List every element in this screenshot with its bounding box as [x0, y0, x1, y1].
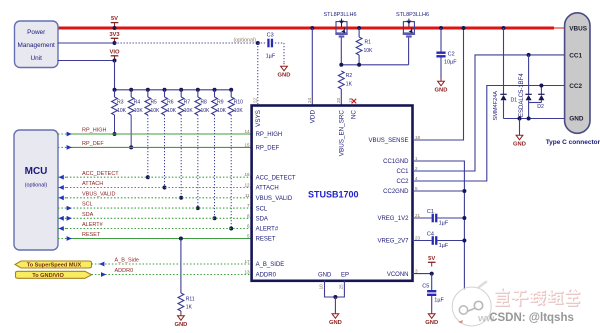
svg-text:R4: R4: [134, 99, 141, 105]
svg-text:Management: Management: [18, 42, 56, 49]
svg-text:GND: GND: [513, 142, 526, 148]
svg-text:D2: D2: [537, 104, 544, 110]
svg-text:2: 2: [415, 166, 418, 171]
wire A_B_SIDE: [92, 263, 252, 265]
node bus junction R6: [163, 88, 167, 92]
svg-text:VBUS: VBUS: [569, 26, 587, 33]
wire signal SCL MCU to U1: [58, 207, 67, 209]
node RP_DEF junction: [129, 145, 133, 149]
wire VBUS_SENSE: [413, 28, 464, 140]
resistor R6 10K pull-up: [164, 90, 166, 97]
node CC2GND junction: [413, 190, 465, 192]
watermark text elecfans: [496, 289, 579, 306]
svg-text:Power: Power: [27, 29, 46, 36]
resistor R11 1K: [178, 293, 184, 311]
wire signal SDA MCU to U1: [58, 217, 67, 219]
svg-text:ACC_DETECT: ACC_DETECT: [256, 175, 296, 181]
svg-text:GND: GND: [435, 88, 448, 94]
resistor R4 10K pull-up: [130, 90, 132, 97]
wire signal RP_DEF MCU to U1: [58, 146, 67, 148]
svg-text:10K: 10K: [134, 108, 144, 114]
svg-text:VCONN: VCONN: [387, 272, 409, 278]
svg-text:6: 6: [247, 224, 250, 229]
svg-text:CC1: CC1: [569, 52, 582, 59]
svg-text:VDD: VDD: [310, 110, 317, 124]
ground GND (connector): [519, 119, 521, 133]
svg-text:R9: R9: [217, 99, 224, 105]
wire VIO from PMU: [58, 60, 115, 62]
wire signal RP_HIGH MCU to U1: [58, 133, 67, 135]
node RESET/R11 junction: [179, 237, 183, 241]
svg-text:C4: C4: [427, 232, 434, 238]
svg-text:VREG_2V7: VREG_2V7: [377, 239, 409, 245]
svg-text:Unit: Unit: [31, 55, 43, 62]
svg-text:GND: GND: [329, 320, 342, 326]
wire signal VBUS_VALID MCU to U1: [58, 197, 67, 199]
node ACC_DETECT junction: [146, 175, 150, 179]
svg-text:ADDR0: ADDR0: [115, 268, 134, 274]
svg-text:ESDALC5-1BF4: ESDALC5-1BF4: [519, 73, 525, 117]
resistor R9 10K pull-up: [214, 90, 216, 97]
ground GND (C5): [431, 311, 433, 314]
transistor Q1 STL8P3LLH6: [336, 22, 347, 33]
svg-text:ALERT#: ALERT#: [256, 227, 279, 233]
svg-text:SCL: SCL: [82, 202, 93, 208]
node ALERT# junction: [229, 227, 233, 231]
diode D2 ESDALC5-1BF4: [528, 55, 530, 94]
svg-text:ADDR0: ADDR0: [256, 273, 277, 279]
svg-text:4: 4: [415, 176, 418, 181]
svg-text:R1: R1: [365, 39, 372, 45]
svg-text:ATTACH: ATTACH: [256, 186, 279, 192]
ground GND (C2): [440, 78, 442, 81]
pin NC no-connect X: [352, 99, 357, 104]
svg-text:8: 8: [247, 213, 250, 218]
svg-text:CC2: CC2: [569, 83, 582, 90]
svg-text:GND: GND: [318, 273, 332, 279]
resistor R3 10K pull-up: [114, 90, 116, 97]
svg-text:STL8P3LLH6: STL8P3LLH6: [323, 12, 356, 18]
node gate/R2 junction: [339, 63, 343, 67]
svg-text:(optional): (optional): [25, 183, 48, 189]
wire R4 to RP_DEF: [130, 115, 132, 147]
capacitor C2 10uF: [440, 28, 442, 52]
svg-text:C3: C3: [267, 32, 274, 38]
svg-text:CC2GND: CC2GND: [383, 189, 409, 195]
node bus junction R4: [129, 88, 133, 92]
svg-text:R10: R10: [234, 99, 243, 105]
wire gate line Q1-Q2: [340, 38, 342, 65]
resistor R10 10K pull-up: [230, 90, 232, 97]
svg-text:24: 24: [307, 97, 312, 103]
watermark logo circle: [452, 282, 491, 327]
svg-text:1K: 1K: [346, 81, 353, 87]
svg-text:18: 18: [415, 135, 421, 140]
wire VIO drop to pull-up bus: [114, 61, 116, 90]
svg-text:3: 3: [415, 269, 418, 274]
svg-text:R11: R11: [186, 296, 195, 302]
svg-text:To GND/VIO: To GND/VIO: [32, 273, 64, 279]
node SDA junction: [213, 216, 217, 220]
svg-text:21: 21: [415, 213, 421, 218]
capacitor C3 1uF: [267, 39, 269, 48]
svg-text:CC1: CC1: [396, 169, 409, 175]
capacitor C1 1uF: [413, 217, 432, 219]
svg-text:10K: 10K: [117, 108, 127, 114]
node RP_HIGH junction: [113, 132, 117, 136]
wire R10 to ALERT#: [230, 115, 232, 229]
node bus junction R9: [213, 88, 217, 92]
wire VSYS dashed: [257, 43, 259, 106]
svg-text:3V3: 3V3: [109, 32, 120, 38]
svg-text:RP_DEF: RP_DEF: [256, 146, 280, 152]
svg-text:22: 22: [252, 97, 257, 103]
svg-text:13: 13: [244, 270, 250, 275]
svg-text:1µF: 1µF: [439, 243, 449, 249]
wire signal ACC_DETECT MCU to U1: [58, 176, 67, 178]
svg-text:ALERT#: ALERT#: [82, 222, 104, 228]
node SCL junction: [196, 206, 200, 210]
svg-text:GND: GND: [425, 320, 438, 326]
svg-text:C5: C5: [422, 283, 429, 289]
svg-text:10µF: 10µF: [444, 60, 457, 66]
svg-text:10K: 10K: [234, 108, 244, 114]
svg-text:SDA: SDA: [256, 217, 268, 223]
ground GND (U1 exposed pad): [334, 311, 336, 314]
capacitor C5 1uF: [431, 274, 433, 291]
mcu box U-MCU: [14, 130, 58, 250]
svg-text:1µF: 1µF: [266, 54, 276, 60]
svg-text:R6: R6: [167, 99, 174, 105]
wire C3 left stub: [258, 42, 266, 44]
wire CC1GND/CC2GND ground bus: [413, 161, 465, 290]
svg-text:VREG_1V2: VREG_1V2: [377, 216, 409, 222]
wire pull-up bus VIO: [115, 89, 232, 91]
svg-text:ATTACH: ATTACH: [82, 181, 103, 187]
power symbol 3V3: [114, 38, 116, 42]
node bus junction R3: [113, 88, 117, 92]
wire signal RESET MCU to U1: [58, 238, 67, 240]
wire signal ATTACH MCU to U1: [58, 187, 67, 189]
resistor R2 1K: [338, 71, 344, 89]
offpage flag To GND/VIO: [16, 271, 92, 278]
wire 3V3 dashed (optional) to VSYS/C3: [115, 42, 258, 44]
svg-text:SDA: SDA: [82, 212, 94, 218]
power-management-unit box U-PMU: [15, 21, 59, 68]
svg-text:VBUS_SENSE: VBUS_SENSE: [368, 138, 408, 144]
svg-text:VIO: VIO: [110, 49, 120, 55]
svg-text:VBUS_VALID: VBUS_VALID: [82, 191, 116, 197]
svg-text:ACC_DETECT: ACC_DETECT: [82, 171, 119, 177]
svg-text:10K: 10K: [200, 108, 210, 114]
wire VCONN: [413, 273, 432, 275]
node R1 bottom junction: [357, 63, 361, 67]
svg-text:5V: 5V: [428, 256, 435, 262]
svg-text:CC1GND: CC1GND: [383, 159, 409, 165]
diode D1 SMM4F24A TVS: [503, 28, 505, 94]
svg-text:16: 16: [244, 172, 250, 177]
wire ADDR0: [92, 274, 252, 276]
svg-text:SCL: SCL: [256, 206, 268, 212]
svg-text:GND: GND: [278, 73, 291, 79]
svg-text:1µF: 1µF: [434, 298, 444, 304]
svg-text:VSYS: VSYS: [255, 110, 262, 127]
wire CC1 to connector: [413, 55, 565, 171]
node R1 rail junction: [357, 26, 361, 30]
svg-text:12: 12: [244, 183, 250, 188]
svg-text:MCU: MCU: [25, 166, 48, 177]
wire R6 to ATTACH: [164, 115, 166, 188]
wire R5 to ACC_DETECT: [147, 115, 149, 177]
node bus junction R5: [146, 88, 150, 92]
svg-text:R2: R2: [346, 73, 353, 79]
node VDD rail junction: [310, 26, 314, 30]
svg-text:15: 15: [244, 142, 250, 147]
wire RESET to R11: [180, 239, 182, 294]
svg-text:RESET: RESET: [256, 237, 276, 243]
resistor R1 10K: [358, 28, 360, 37]
svg-text:VBUS_EN_SRC: VBUS_EN_SRC: [339, 110, 346, 157]
svg-text:RP_HIGH: RP_HIGH: [256, 132, 283, 138]
svg-text:R5: R5: [150, 99, 157, 105]
ground GND (C3): [283, 63, 285, 66]
svg-text:A_B_SIDE: A_B_SIDE: [256, 262, 285, 268]
node 3V3/C3 junction: [256, 41, 260, 45]
svg-text:5: 5: [415, 186, 418, 191]
svg-text:Type C connector: Type C connector: [546, 139, 600, 146]
svg-text:A_B_Side: A_B_Side: [115, 258, 139, 264]
node bus junction R7: [179, 88, 183, 92]
svg-text:(optional): (optional): [234, 37, 257, 43]
connector J1 Type C: [565, 13, 590, 134]
resistor R7 10K pull-up: [180, 90, 182, 97]
svg-text:To SuperSpeed MUX: To SuperSpeed MUX: [27, 263, 82, 269]
wire R9 to SDA: [214, 115, 216, 218]
wire connector GND line: [504, 118, 565, 120]
svg-text:20: 20: [336, 97, 341, 103]
svg-text:10K: 10K: [150, 108, 160, 114]
svg-text:25: 25: [339, 284, 344, 290]
svg-text:10K: 10K: [184, 108, 194, 114]
svg-text:1µF: 1µF: [439, 220, 449, 226]
wire CC2 to connector: [413, 86, 565, 182]
svg-text:GND: GND: [569, 116, 584, 123]
svg-text:C1: C1: [427, 209, 434, 215]
node D2a CC1 junction: [527, 53, 531, 57]
ground GND (R11): [180, 311, 182, 313]
wire VDD to rail: [311, 28, 313, 106]
svg-text:11: 11: [245, 193, 250, 198]
transistor Q2 STL8P3LLH6: [403, 22, 414, 33]
svg-text:C2: C2: [448, 52, 455, 58]
svg-text:RP_HIGH: RP_HIGH: [82, 128, 106, 134]
svg-text:1K: 1K: [186, 305, 193, 311]
node VBUS_VALID junction: [179, 196, 183, 200]
svg-text:CC2: CC2: [396, 179, 409, 185]
svg-text:SMM4F24A: SMM4F24A: [493, 91, 499, 121]
wire R7 to VBUS_VALID: [180, 115, 182, 198]
node C2 rail junction: [439, 26, 443, 30]
wire signal ALERT# MCU to U1: [58, 228, 67, 230]
power symbol 5V: [114, 23, 116, 27]
svg-text:EP: EP: [341, 273, 349, 279]
svg-text:14: 14: [244, 129, 250, 134]
svg-text:10K: 10K: [364, 48, 374, 54]
svg-text:10: 10: [319, 284, 324, 290]
capacitor C4 1uF: [413, 240, 432, 242]
svg-text:17: 17: [244, 259, 250, 264]
svg-text:R8: R8: [200, 99, 207, 105]
resistor R8 10K pull-up: [197, 90, 199, 97]
svg-text:VBUS_VALID: VBUS_VALID: [256, 196, 293, 202]
svg-text:RP_DEF: RP_DEF: [82, 141, 104, 147]
node ATTACH junction: [163, 186, 167, 190]
node bus junction R10: [229, 88, 233, 92]
wire 3V3 from PMU: [58, 42, 115, 44]
svg-text:NC: NC: [351, 110, 358, 120]
wire C3 to GND: [275, 42, 284, 44]
svg-text:STL8P3LLH6: STL8P3LLH6: [396, 12, 429, 18]
svg-text:ww: ww: [477, 312, 495, 324]
resistor R5 10K pull-up: [147, 90, 149, 97]
svg-text:D1: D1: [511, 97, 518, 103]
wire 5V rail from PMU to VBUS (net 5V/VBUS): [58, 27, 555, 30]
svg-text:10K: 10K: [167, 108, 177, 114]
svg-text:R3: R3: [117, 99, 124, 105]
svg-text:5: 5: [247, 234, 250, 239]
wire R8 to SCL: [197, 115, 199, 208]
svg-text:STUSB1700: STUSB1700: [308, 190, 359, 200]
svg-text:1: 1: [415, 156, 418, 161]
svg-text:23: 23: [415, 236, 421, 241]
node bus junction R8: [196, 88, 200, 92]
node D1 rail junction: [502, 26, 506, 30]
svg-text:CSDN: @ltqshs: CSDN: @ltqshs: [489, 312, 574, 324]
wire GND/EP to ground: [325, 281, 345, 297]
svg-text:GND: GND: [174, 322, 187, 328]
power symbol VIO: [114, 56, 116, 60]
op-amp U1 STUSB1700 body: [252, 106, 413, 281]
power symbol 5V (VCONN): [431, 262, 433, 266]
svg-text:R7: R7: [184, 99, 191, 105]
svg-text:5V: 5V: [111, 16, 118, 22]
svg-text:7: 7: [247, 203, 250, 208]
svg-text:RESET: RESET: [82, 232, 101, 238]
offpage flag To SuperSpeed MUX: [15, 261, 92, 268]
svg-text:10K: 10K: [217, 108, 227, 114]
wire R3 to RP_HIGH: [114, 115, 116, 134]
